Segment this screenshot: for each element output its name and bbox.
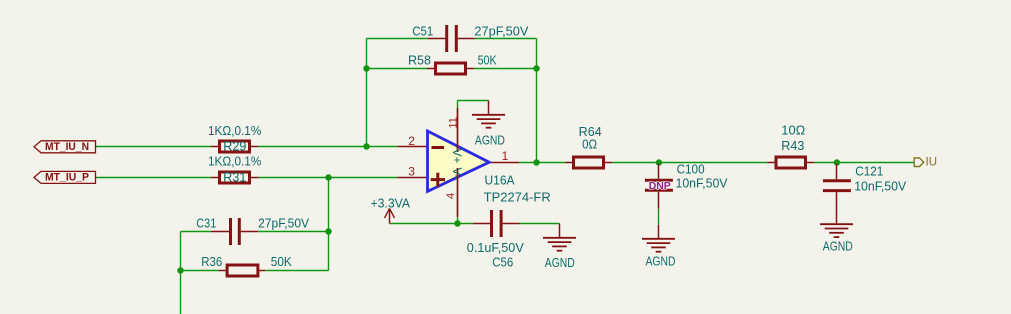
svg-text:R36: R36: [201, 255, 222, 269]
svg-text:AGND: AGND: [646, 255, 676, 269]
svg-text:MT_IU_P: MT_IU_P: [45, 172, 89, 184]
svg-text:AGND: AGND: [475, 134, 505, 148]
svg-text:R31: R31: [223, 170, 246, 184]
svg-text:50K: 50K: [478, 53, 498, 67]
svg-text:2: 2: [408, 134, 415, 148]
svg-text:10nF,50V: 10nF,50V: [854, 180, 907, 194]
svg-text:DNP: DNP: [649, 180, 671, 192]
svg-text:0.1uF,50V: 0.1uF,50V: [467, 241, 525, 255]
svg-text:1KΩ,0.1%: 1KΩ,0.1%: [208, 124, 261, 138]
svg-text:R58: R58: [408, 53, 431, 67]
svg-text:C100: C100: [677, 163, 705, 177]
svg-text:V+: V+: [450, 149, 464, 164]
svg-text:AGND: AGND: [545, 256, 575, 270]
svg-text:4: 4: [445, 193, 457, 199]
svg-text:AGND: AGND: [823, 240, 853, 254]
svg-text:+3.3VA: +3.3VA: [371, 196, 411, 210]
svg-text:C31: C31: [196, 217, 216, 231]
svg-text:U16A: U16A: [485, 174, 516, 188]
svg-text:R29: R29: [223, 139, 246, 153]
svg-text:TP2274-FR: TP2274-FR: [484, 191, 551, 205]
svg-text:R43: R43: [781, 139, 804, 153]
svg-text:27pF,50V: 27pF,50V: [258, 217, 310, 231]
svg-text:1: 1: [502, 149, 509, 163]
svg-text:50K: 50K: [271, 255, 293, 269]
svg-text:11: 11: [448, 117, 460, 128]
svg-text:IU: IU: [926, 157, 938, 169]
svg-text:1KΩ,0.1%: 1KΩ,0.1%: [208, 155, 261, 169]
svg-text:3: 3: [408, 164, 415, 178]
svg-text:MT_IU_N: MT_IU_N: [45, 141, 89, 153]
svg-text:10Ω: 10Ω: [781, 124, 805, 138]
svg-text:10nF,50V: 10nF,50V: [676, 177, 729, 191]
svg-text:C121: C121: [855, 165, 883, 179]
svg-text:27pF,50V: 27pF,50V: [474, 25, 529, 39]
svg-text:V-: V-: [450, 168, 464, 179]
svg-text:C56: C56: [492, 256, 513, 270]
svg-text:C51: C51: [412, 25, 433, 39]
svg-text:0Ω: 0Ω: [582, 137, 597, 151]
